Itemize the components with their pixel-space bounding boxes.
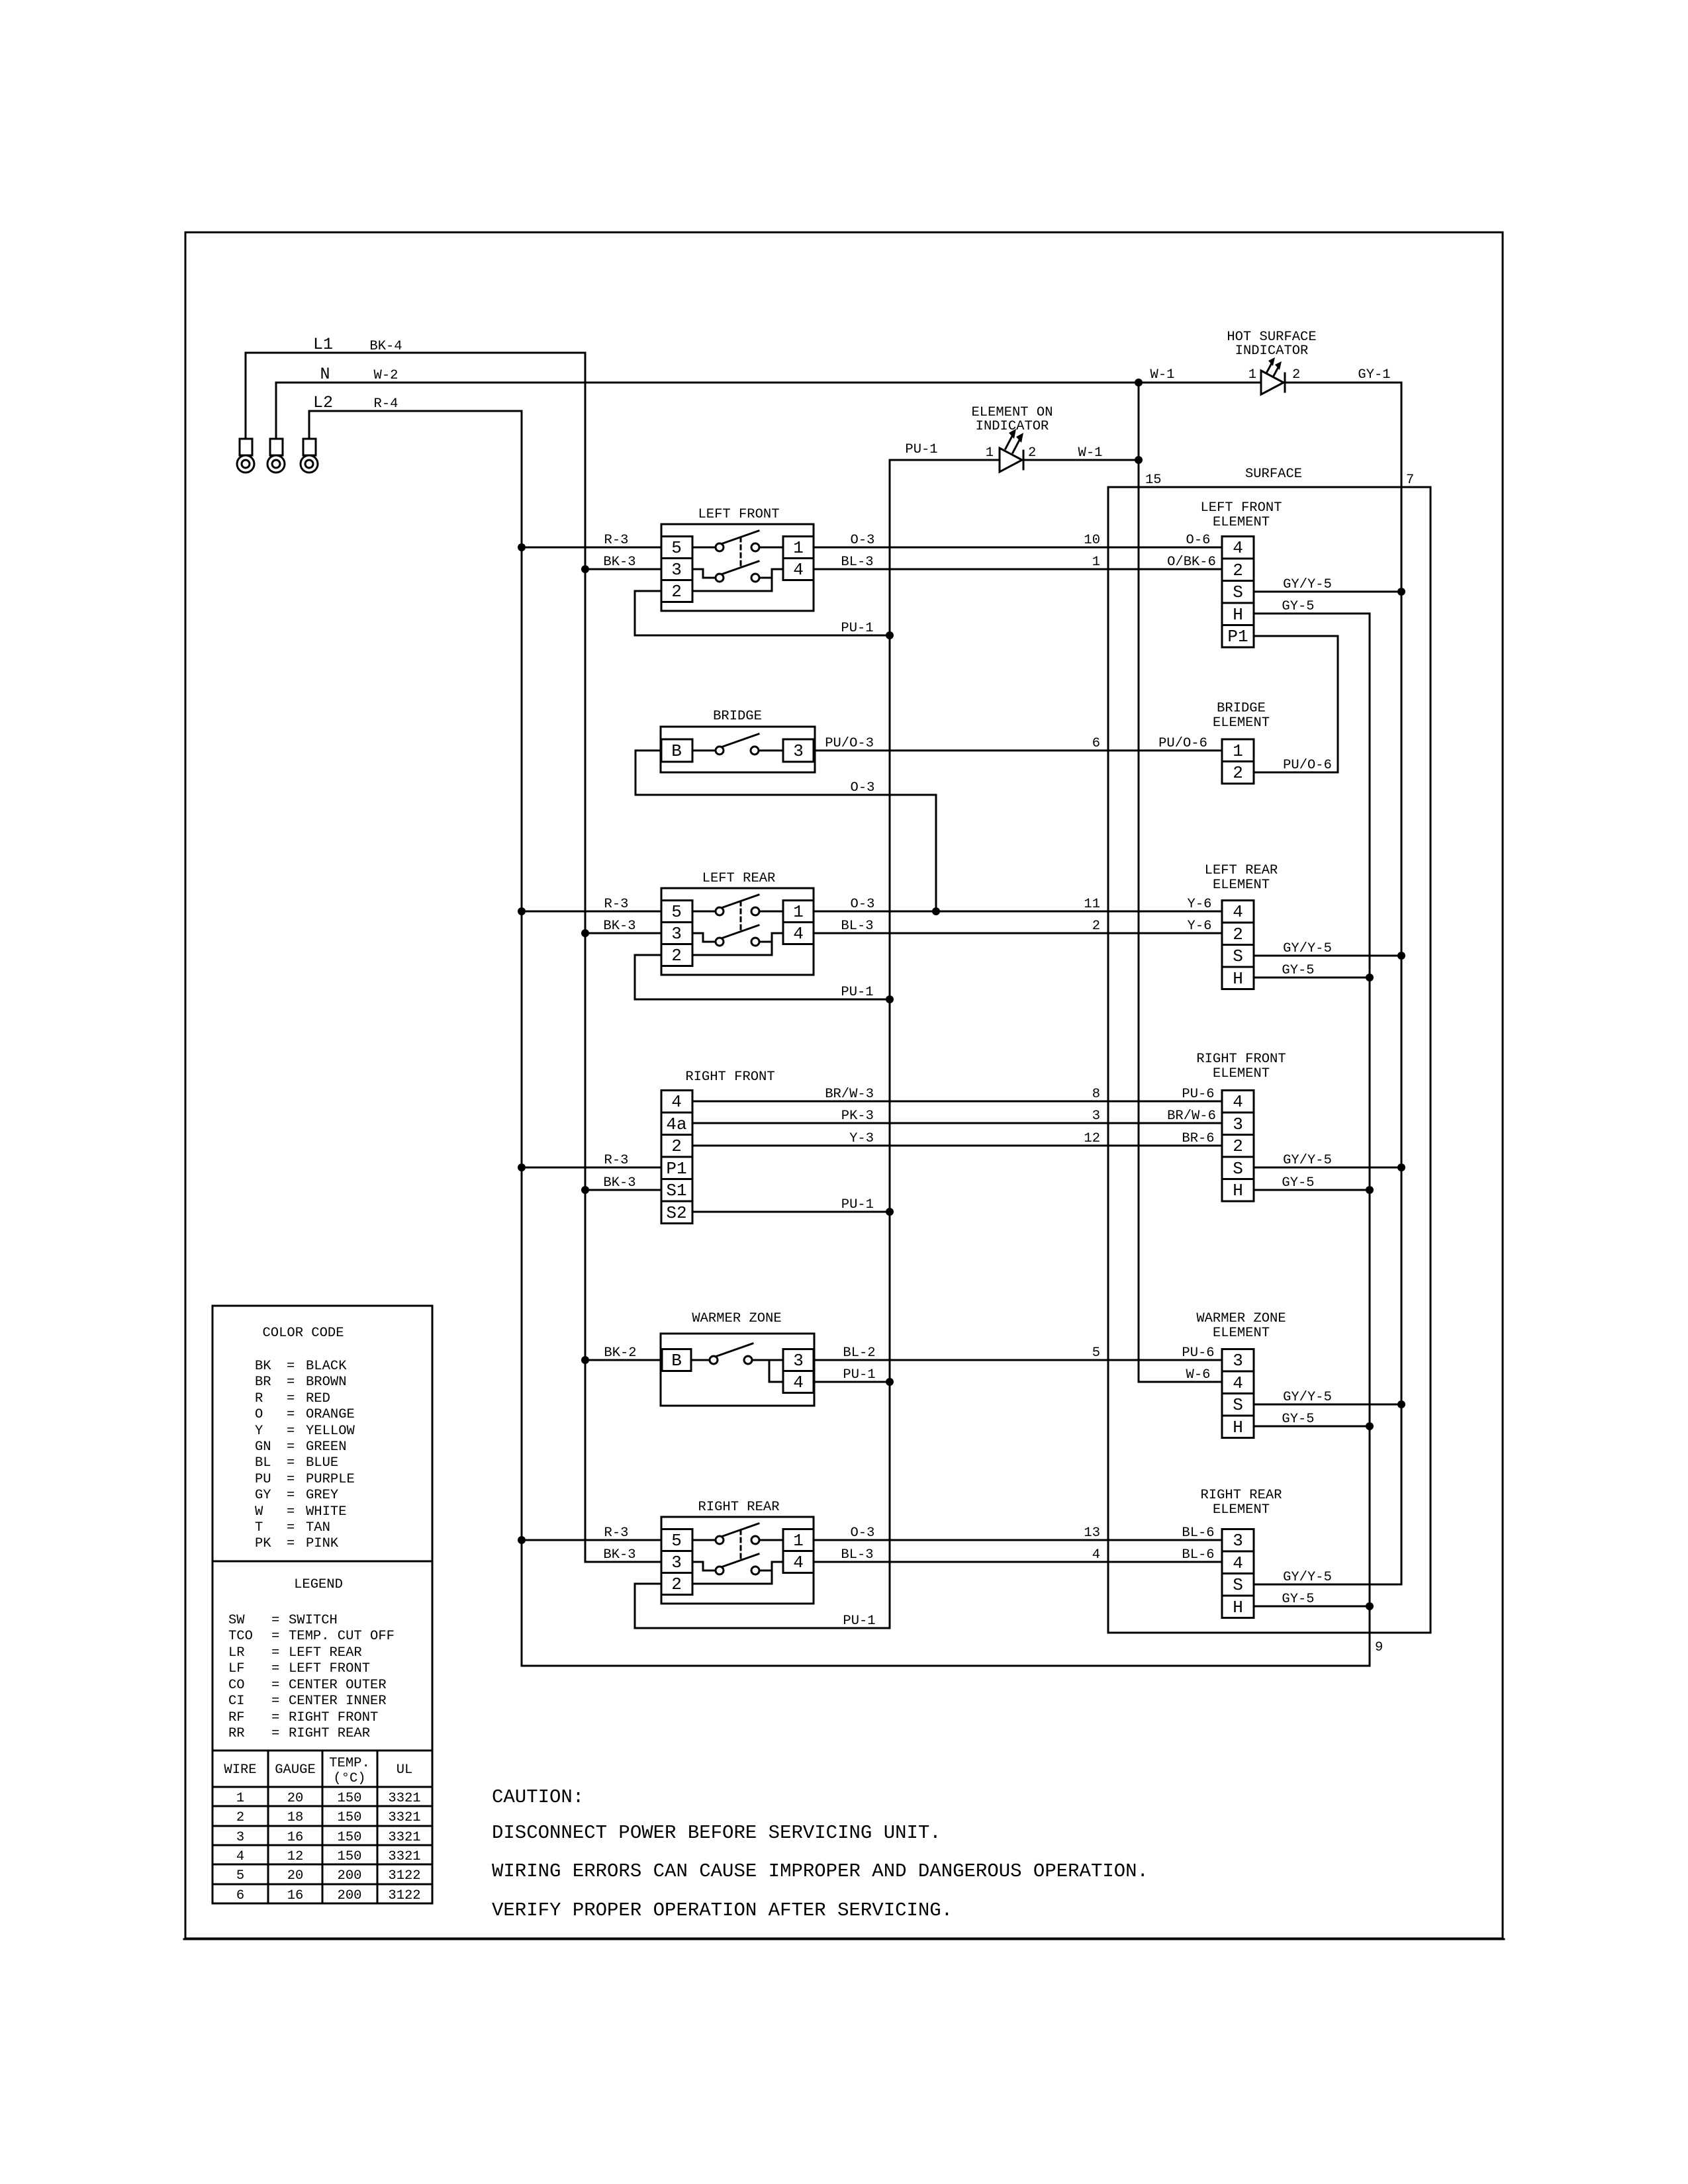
svg-text:GY: GY <box>255 1488 271 1503</box>
svg-text:BR-6: BR-6 <box>1182 1131 1214 1146</box>
svg-text:BL-3: BL-3 <box>841 555 873 570</box>
svg-text:16: 16 <box>287 1830 304 1845</box>
svg-text:3: 3 <box>1233 1531 1243 1551</box>
svg-text:(°C): (°C) <box>333 1771 365 1786</box>
svg-text:R-4: R-4 <box>374 396 399 412</box>
svg-text:TAN: TAN <box>306 1520 330 1535</box>
junction PU bus / RF S2 PU-1 <box>886 1208 894 1216</box>
svg-text:ELEMENT: ELEMENT <box>1213 715 1270 731</box>
svg-text:CO: CO <box>228 1678 245 1693</box>
svg-text:SURFACE: SURFACE <box>1245 467 1302 482</box>
svg-text:Y: Y <box>255 1424 263 1439</box>
wire W-1 from W bus junction to hot surface indicator pin 1 <box>1139 367 1261 383</box>
svg-text:3: 3 <box>793 1351 804 1371</box>
svg-text:4: 4 <box>236 1849 244 1864</box>
svg-text:GREEN: GREEN <box>306 1439 347 1455</box>
svg-text:=: = <box>287 1536 295 1551</box>
border frame of drawing <box>185 232 1503 1938</box>
svg-text:BL-2: BL-2 <box>843 1345 875 1361</box>
terminal L1 with ring lug and label <box>237 335 333 473</box>
svg-text:O/BK-6: O/BK-6 <box>1167 555 1216 570</box>
svg-text:3321: 3321 <box>388 1810 420 1825</box>
svg-text:3: 3 <box>1233 1115 1243 1134</box>
svg-text:S: S <box>1233 1575 1243 1595</box>
svg-text:LR: LR <box>228 1645 245 1661</box>
element BRIDGE ELEMENT (terminal block) <box>1213 701 1270 784</box>
svg-text:3: 3 <box>1233 1351 1243 1371</box>
wire BL-3 / Y-6 circuit 2 from LEFT REAR pin 4 to LR element pin 2 <box>814 919 1222 934</box>
wire PU-1 from WARMER ZONE pin 4 to PU bus <box>814 1367 890 1383</box>
svg-text:O-3: O-3 <box>851 780 875 796</box>
svg-text:=: = <box>287 1504 295 1520</box>
svg-text:WARMER ZONE: WARMER ZONE <box>692 1311 781 1326</box>
svg-text:6: 6 <box>236 1888 244 1903</box>
svg-text:GY/Y-5: GY/Y-5 <box>1283 1570 1332 1585</box>
svg-text:PU/O-6: PU/O-6 <box>1158 736 1207 751</box>
svg-text:PU: PU <box>255 1472 271 1487</box>
svg-text:4: 4 <box>1233 1553 1243 1573</box>
svg-text:RR: RR <box>228 1726 245 1741</box>
svg-text:R-3: R-3 <box>604 897 629 912</box>
svg-text:RIGHT FRONT: RIGHT FRONT <box>685 1069 774 1085</box>
svg-text:BROWN: BROWN <box>306 1375 347 1390</box>
svg-text:R-3: R-3 <box>604 533 629 548</box>
wire GY/Y-5 from RF element S to GY/Y bus <box>1254 1153 1401 1168</box>
W bus (white neutral net) down to warmer zone element pin 4, label W-6 <box>1139 383 1222 1383</box>
svg-text:6: 6 <box>1092 736 1100 751</box>
svg-text:RED: RED <box>306 1391 330 1406</box>
svg-text:O-3: O-3 <box>851 533 875 548</box>
switch LEFT REAR (infinite switch SW-LR) <box>661 871 814 975</box>
svg-text:W-6: W-6 <box>1186 1367 1211 1383</box>
wire GY/Y-5 from WZ element S to GY/Y bus <box>1254 1390 1401 1405</box>
wire R-3 to LEFT FRONT pin 5 <box>522 533 661 548</box>
svg-text:PU-6: PU-6 <box>1182 1345 1214 1361</box>
wire O-3 / O-6 circuit 10 from LEFT FRONT pin 1 to LF element pin 4 <box>814 533 1222 548</box>
svg-text:WIRE: WIRE <box>224 1762 256 1778</box>
svg-text:5: 5 <box>671 1531 682 1551</box>
svg-text:4: 4 <box>1233 538 1243 558</box>
svg-text:VERIFY PROPER OPERATION AFTER: VERIFY PROPER OPERATION AFTER SERVICING. <box>492 1899 953 1921</box>
terminal L2 with ring lug and label <box>301 393 333 473</box>
svg-text:150: 150 <box>338 1849 362 1864</box>
svg-text:=: = <box>287 1472 295 1487</box>
svg-text:W-1: W-1 <box>1150 367 1175 383</box>
element WARMER ZONE ELEMENT (terminal block) <box>1196 1311 1286 1438</box>
svg-text:1: 1 <box>1248 367 1256 383</box>
svg-text:2: 2 <box>1233 561 1243 580</box>
svg-text:7: 7 <box>1406 473 1414 488</box>
svg-text:ELEMENT: ELEMENT <box>1213 878 1270 893</box>
svg-text:ORANGE: ORANGE <box>306 1407 355 1422</box>
LED U2 element on indicator <box>971 405 1053 472</box>
wire BK-2 to WARMER ZONE pin B <box>585 1345 662 1361</box>
svg-text:BL-6: BL-6 <box>1182 1547 1214 1563</box>
svg-text:1: 1 <box>793 1531 804 1551</box>
svg-text:PU-6: PU-6 <box>1182 1087 1214 1102</box>
svg-text:P1: P1 <box>1227 627 1248 647</box>
svg-text:BK-3: BK-3 <box>603 1547 635 1563</box>
svg-text:ELEMENT: ELEMENT <box>1213 515 1270 530</box>
svg-text:ELEMENT: ELEMENT <box>1213 1502 1270 1518</box>
svg-text:PU-1: PU-1 <box>841 621 873 636</box>
svg-text:13: 13 <box>1084 1525 1100 1541</box>
element RIGHT REAR ELEMENT (terminal block) <box>1200 1488 1282 1618</box>
junction GY-5 bus / RR H <box>1366 1602 1374 1610</box>
junction BK bus / RF BK-3 <box>581 1186 589 1194</box>
svg-text:5: 5 <box>236 1868 244 1884</box>
svg-text:18: 18 <box>287 1810 304 1825</box>
COLOR CODE table <box>212 1306 432 1561</box>
BK bus (black L1 feed) vertical <box>585 353 586 1562</box>
svg-text:RIGHT REAR: RIGHT REAR <box>698 1500 779 1515</box>
svg-text:RF: RF <box>228 1710 245 1725</box>
svg-text:W-1: W-1 <box>1078 445 1103 461</box>
wire GY-5 from LR element H to GY-5 bus <box>1254 963 1370 978</box>
junction PU bus / WZ PU-1 <box>886 1378 894 1386</box>
svg-text:SWITCH: SWITCH <box>289 1613 338 1628</box>
wire PK-3 / BR/W-6 circuit 3 from RIGHT FRONT pin 4a to RF element pin 3 <box>692 1109 1222 1124</box>
border frame bottom edge (heavy) <box>184 1938 1504 1940</box>
svg-text:Y-6: Y-6 <box>1188 919 1212 934</box>
svg-text:1: 1 <box>793 902 804 922</box>
wire BK-3 to RIGHT FRONT pin S1 <box>585 1175 661 1191</box>
svg-text:BRIDGE: BRIDGE <box>1217 701 1266 716</box>
wire O-3 / BL-6 circuit 13 from RIGHT REAR pin 1 to RR element pin 3 <box>814 1525 1222 1541</box>
svg-text:3122: 3122 <box>388 1868 420 1884</box>
svg-text:PU-1: PU-1 <box>843 1367 875 1383</box>
wire W-1 from element-on indicator pin 2 to W bus junction <box>1023 445 1139 461</box>
svg-text:S: S <box>1233 582 1243 602</box>
svg-text:TEMP.: TEMP. <box>329 1756 370 1771</box>
svg-text:3: 3 <box>1092 1109 1100 1124</box>
svg-text:PU-1: PU-1 <box>841 1197 874 1212</box>
wire GY-5 from RR element H to GY-5 bus <box>1254 1592 1370 1607</box>
wire GY-5 from RF element H to GY-5 bus <box>1254 1175 1370 1191</box>
svg-text:GY-5: GY-5 <box>1282 599 1314 614</box>
svg-text:1: 1 <box>236 1791 244 1806</box>
svg-text:4: 4 <box>793 560 804 580</box>
junction GY/Y bus / RF S <box>1397 1163 1405 1171</box>
svg-text:4: 4 <box>793 1553 804 1572</box>
svg-text:ELEMENT ON: ELEMENT ON <box>971 405 1053 420</box>
svg-text:20: 20 <box>287 1868 304 1884</box>
element LEFT REAR ELEMENT (terminal block) <box>1205 863 1278 989</box>
switch RIGHT REAR (infinite switch SW-RR) <box>661 1500 814 1604</box>
svg-text:GY-5: GY-5 <box>1282 963 1314 978</box>
svg-text:BL-3: BL-3 <box>841 919 873 934</box>
wire GY-1 from hot surface indicator pin 2 forming GY/Y bus down to right rear element S <box>1254 367 1401 1584</box>
junction GY/Y bus / WZ S <box>1397 1400 1405 1408</box>
svg-text:1: 1 <box>1092 555 1100 570</box>
svg-text:=: = <box>287 1439 295 1455</box>
svg-text:11: 11 <box>1084 897 1100 912</box>
svg-text:9: 9 <box>1375 1640 1383 1655</box>
svg-text:LEFT FRONT: LEFT FRONT <box>289 1661 370 1676</box>
svg-text:L1: L1 <box>313 335 333 354</box>
svg-text:CI: CI <box>228 1694 245 1709</box>
wire R-4 from L2 to R bus <box>309 396 522 412</box>
svg-text:150: 150 <box>338 1830 362 1845</box>
svg-text:4: 4 <box>793 1373 804 1392</box>
svg-text:PK-3: PK-3 <box>841 1109 874 1124</box>
wire PU/O-3 / PU/O-6 circuit 6 from BRIDGE pin 3 to bridge element pin 1 <box>814 736 1222 751</box>
svg-text:R: R <box>255 1391 263 1406</box>
switch WARMER ZONE (SW-WZ) <box>661 1311 814 1406</box>
svg-text:200: 200 <box>338 1868 362 1884</box>
svg-text:Y-3: Y-3 <box>849 1131 874 1146</box>
svg-text:R-3: R-3 <box>604 1525 629 1541</box>
svg-text:O-6: O-6 <box>1186 533 1211 548</box>
svg-text:3122: 3122 <box>388 1888 420 1903</box>
svg-text:H: H <box>1233 605 1243 625</box>
wire R-3 to LEFT REAR pin 5 <box>522 897 661 912</box>
svg-text:4: 4 <box>793 924 804 944</box>
svg-text:GY/Y-5: GY/Y-5 <box>1283 1390 1332 1405</box>
svg-text:BK-3: BK-3 <box>603 919 635 934</box>
svg-text:GAUGE: GAUGE <box>275 1762 316 1778</box>
svg-text:TEMP. CUT OFF: TEMP. CUT OFF <box>289 1629 395 1644</box>
svg-text:YELLOW: YELLOW <box>306 1424 355 1439</box>
junction W bus / element-on indicator W-1 <box>1135 456 1143 464</box>
switch BRIDGE (SW-BR) <box>661 709 815 772</box>
svg-text:1: 1 <box>1233 741 1243 761</box>
R bus (red L2 feed) vertical with bottom run to GY-5 bus <box>522 411 1370 1666</box>
svg-text:T: T <box>255 1520 263 1535</box>
svg-text:UL: UL <box>397 1762 413 1778</box>
svg-text:=: = <box>287 1455 295 1471</box>
junction BK bus / LF BK-3 <box>581 565 589 573</box>
svg-text:BLUE: BLUE <box>306 1455 338 1471</box>
svg-text:BK: BK <box>255 1359 271 1374</box>
svg-text:2: 2 <box>671 582 682 602</box>
junction BK bus / WZ BK-2 <box>581 1356 589 1364</box>
junction GY-5 bus / WZ H <box>1366 1422 1374 1430</box>
svg-text:12: 12 <box>287 1849 304 1864</box>
svg-text:=: = <box>271 1613 279 1628</box>
wire O-3 / Y-6 circuit 11 from LEFT REAR pin 1 to LR element pin 4 <box>814 897 1222 912</box>
wire PU/O-6 from LF element P1 to bridge element pin 2 <box>1254 636 1338 773</box>
svg-text:PU-1: PU-1 <box>841 985 873 1000</box>
svg-text:BR: BR <box>255 1375 271 1390</box>
svg-text:LF: LF <box>228 1661 245 1676</box>
LED U1 hot surface indicator <box>1227 330 1316 394</box>
svg-text:LEGEND: LEGEND <box>294 1577 343 1592</box>
svg-text:RIGHT REAR: RIGHT REAR <box>289 1726 370 1741</box>
svg-text:3: 3 <box>793 741 804 761</box>
svg-text:5: 5 <box>671 902 682 922</box>
junction R bus / LR R-3 <box>518 907 526 915</box>
svg-text:RIGHT FRONT: RIGHT FRONT <box>1196 1052 1286 1067</box>
svg-text:H: H <box>1233 1418 1243 1437</box>
svg-text:ELEMENT: ELEMENT <box>1213 1066 1270 1081</box>
svg-text:LEFT FRONT: LEFT FRONT <box>698 507 779 522</box>
svg-text:=: = <box>287 1407 295 1422</box>
junction R bus / LF R-3 <box>518 543 526 551</box>
svg-text:GY-5: GY-5 <box>1282 1592 1314 1607</box>
svg-text:=: = <box>287 1391 295 1406</box>
SURFACE unit enclosure box <box>1108 467 1430 1633</box>
svg-text:H: H <box>1233 969 1243 989</box>
svg-text:GY/Y-5: GY/Y-5 <box>1283 941 1332 956</box>
switch LEFT FRONT (infinite switch SW-LF) <box>661 507 814 611</box>
svg-text:BL-3: BL-3 <box>841 1547 873 1563</box>
svg-text:S: S <box>1233 946 1243 966</box>
svg-text:4a: 4a <box>666 1115 686 1134</box>
svg-text:O-3: O-3 <box>851 897 875 912</box>
svg-text:O: O <box>255 1407 263 1422</box>
junction BK bus / LR BK-3 <box>581 929 589 937</box>
svg-text:20: 20 <box>287 1791 304 1806</box>
svg-text:GN: GN <box>255 1439 271 1455</box>
svg-text:BLACK: BLACK <box>306 1359 347 1374</box>
junction R bus / RF R-3 <box>518 1163 526 1171</box>
svg-text:3321: 3321 <box>388 1849 420 1864</box>
svg-text:3: 3 <box>236 1830 244 1845</box>
svg-text:2: 2 <box>1233 925 1243 944</box>
svg-text:W: W <box>255 1504 263 1520</box>
svg-text:Y-6: Y-6 <box>1188 897 1212 912</box>
svg-text:3321: 3321 <box>388 1791 420 1806</box>
svg-text:SW: SW <box>228 1613 245 1628</box>
svg-text:3: 3 <box>671 560 682 580</box>
svg-text:S: S <box>1233 1159 1243 1179</box>
svg-text:ELEMENT: ELEMENT <box>1213 1326 1270 1341</box>
svg-text:GY-5: GY-5 <box>1282 1175 1314 1191</box>
svg-text:BR/W-3: BR/W-3 <box>825 1087 874 1102</box>
PU bus (purple indicator net) vertical <box>889 460 891 1628</box>
svg-text:N: N <box>320 365 330 384</box>
svg-text:BK-2: BK-2 <box>604 1345 636 1361</box>
wire O-3 from BRIDGE pin B down to LEFT REAR pin 1 wire <box>635 751 936 911</box>
svg-text:12: 12 <box>1084 1131 1100 1146</box>
svg-text:4: 4 <box>1233 1373 1243 1393</box>
wire BL-2 / PU-6 circuit 5 from WARMER ZONE pin 3 to WZ element pin 3 <box>814 1345 1222 1361</box>
wire PU-1 from LEFT FRONT pin 2 to PU bus <box>635 591 890 636</box>
junction GY-5 bus / RF H <box>1366 1186 1374 1194</box>
svg-text:2: 2 <box>236 1810 244 1825</box>
wire PU-1 from PU bus to element-on indicator pin 1 <box>890 442 1000 460</box>
svg-text:O-3: O-3 <box>851 1525 875 1541</box>
svg-text:=: = <box>287 1424 295 1439</box>
svg-text:GY-1: GY-1 <box>1358 367 1390 383</box>
svg-text:PU-1: PU-1 <box>843 1614 875 1629</box>
svg-text:2: 2 <box>1092 919 1100 934</box>
svg-text:5: 5 <box>671 538 682 558</box>
svg-text:150: 150 <box>338 1810 362 1825</box>
svg-text:BL-6: BL-6 <box>1182 1525 1214 1541</box>
WIRE GAUGE TEMP UL table <box>212 1751 432 1903</box>
svg-text:PK: PK <box>255 1536 271 1551</box>
svg-text:3: 3 <box>671 1553 682 1572</box>
wire BK-3 to LEFT REAR pin 3 <box>585 919 661 934</box>
svg-text:INDICATOR: INDICATOR <box>1235 343 1309 359</box>
svg-text:2: 2 <box>1292 367 1300 383</box>
svg-text:LEFT FRONT: LEFT FRONT <box>1200 500 1282 516</box>
svg-text:CENTER INNER: CENTER INNER <box>289 1694 387 1709</box>
junction bridge O-3 / LR O-3 <box>932 907 940 915</box>
svg-text:4: 4 <box>671 1092 682 1112</box>
wire BR/W-3 / PU-6 circuit 8 from RIGHT FRONT pin 4 to RF element pin 4 <box>692 1087 1222 1102</box>
svg-text:=: = <box>287 1375 295 1390</box>
switch RIGHT FRONT (terminal stack SW-RF) <box>661 1069 775 1224</box>
svg-text:BK-3: BK-3 <box>603 1175 635 1191</box>
svg-text:WIRING ERRORS CAN CAUSE IMPROP: WIRING ERRORS CAN CAUSE IMPROPER AND DAN… <box>492 1860 1149 1882</box>
svg-text:2: 2 <box>671 946 682 966</box>
svg-text:=: = <box>271 1678 279 1693</box>
wire R-3 to RIGHT FRONT pin P1 <box>522 1153 661 1168</box>
wire GY/Y-5 from LR element S to GY/Y bus <box>1254 941 1401 956</box>
svg-text:GY/Y-5: GY/Y-5 <box>1283 577 1332 592</box>
svg-text:10: 10 <box>1084 533 1100 548</box>
svg-text:P1: P1 <box>666 1159 686 1179</box>
svg-text:LEFT REAR: LEFT REAR <box>1205 863 1278 878</box>
svg-text:B: B <box>671 1351 682 1371</box>
element LEFT FRONT ELEMENT (terminal block) <box>1200 500 1282 647</box>
svg-text:H: H <box>1233 1598 1243 1617</box>
svg-text:B: B <box>671 741 682 761</box>
svg-text:200: 200 <box>338 1888 362 1903</box>
wire PU-1 from RIGHT FRONT pin S2 to PU bus <box>692 1197 890 1212</box>
wire GY/Y-5 from LF element S to GY/Y bus <box>1254 577 1401 592</box>
junction W bus / W-2 wire <box>1135 379 1143 387</box>
terminal N with ring lug and label <box>267 365 330 473</box>
svg-text:=: = <box>271 1645 279 1661</box>
wire W-2 from N to W bus junction <box>276 368 1139 383</box>
svg-text:BK-4: BK-4 <box>369 339 402 354</box>
svg-text:BL: BL <box>255 1455 271 1471</box>
svg-text:=: = <box>271 1661 279 1676</box>
svg-text:WARMER ZONE: WARMER ZONE <box>1196 1311 1286 1326</box>
svg-text:5: 5 <box>1092 1345 1100 1361</box>
svg-text:PINK: PINK <box>306 1536 339 1551</box>
svg-text:8: 8 <box>1092 1087 1100 1102</box>
svg-text:=: = <box>271 1694 279 1709</box>
svg-text:CENTER OUTER: CENTER OUTER <box>289 1678 387 1693</box>
svg-text:W-2: W-2 <box>374 368 399 383</box>
svg-text:DISCONNECT POWER BEFORE SERVIC: DISCONNECT POWER BEFORE SERVICING UNIT. <box>492 1822 941 1844</box>
svg-text:PU/O-3: PU/O-3 <box>825 736 874 751</box>
svg-text:3: 3 <box>671 924 682 944</box>
svg-text:LEFT REAR: LEFT REAR <box>289 1645 362 1661</box>
svg-text:BRIDGE: BRIDGE <box>713 709 762 724</box>
svg-text:S1: S1 <box>666 1181 686 1201</box>
svg-text:RIGHT REAR: RIGHT REAR <box>1200 1488 1282 1503</box>
wire BL-3 / BL-6 circuit 4 from RIGHT REAR pin 4 to RR element pin 4 <box>814 1547 1222 1563</box>
svg-text:=: = <box>271 1629 279 1644</box>
svg-text:4: 4 <box>1233 902 1243 922</box>
svg-text:=: = <box>287 1520 295 1535</box>
svg-text:WHITE: WHITE <box>306 1504 347 1520</box>
svg-text:2: 2 <box>1233 763 1243 783</box>
svg-text:=: = <box>271 1726 279 1741</box>
svg-text:S2: S2 <box>666 1203 686 1223</box>
wire PU-1 from RIGHT REAR pin 2 to PU bus <box>635 1584 890 1629</box>
junction PU bus / LF PU-1 <box>886 631 894 639</box>
svg-text:LEFT REAR: LEFT REAR <box>702 871 776 886</box>
svg-text:1: 1 <box>793 538 804 558</box>
svg-text:GREY: GREY <box>306 1488 338 1503</box>
svg-text:2: 2 <box>671 1574 682 1594</box>
svg-text:2: 2 <box>1028 445 1036 461</box>
junction GY-5 bus / LR H <box>1366 974 1374 981</box>
svg-text:BR/W-6: BR/W-6 <box>1167 1109 1216 1124</box>
wire PU-1 from LEFT REAR pin 2 to PU bus <box>635 955 890 1000</box>
svg-text:=: = <box>287 1359 295 1374</box>
wire GY-5 from WZ element H to GY-5 bus <box>1254 1412 1370 1427</box>
svg-text:4: 4 <box>1092 1547 1100 1563</box>
svg-text:2: 2 <box>1233 1136 1243 1156</box>
